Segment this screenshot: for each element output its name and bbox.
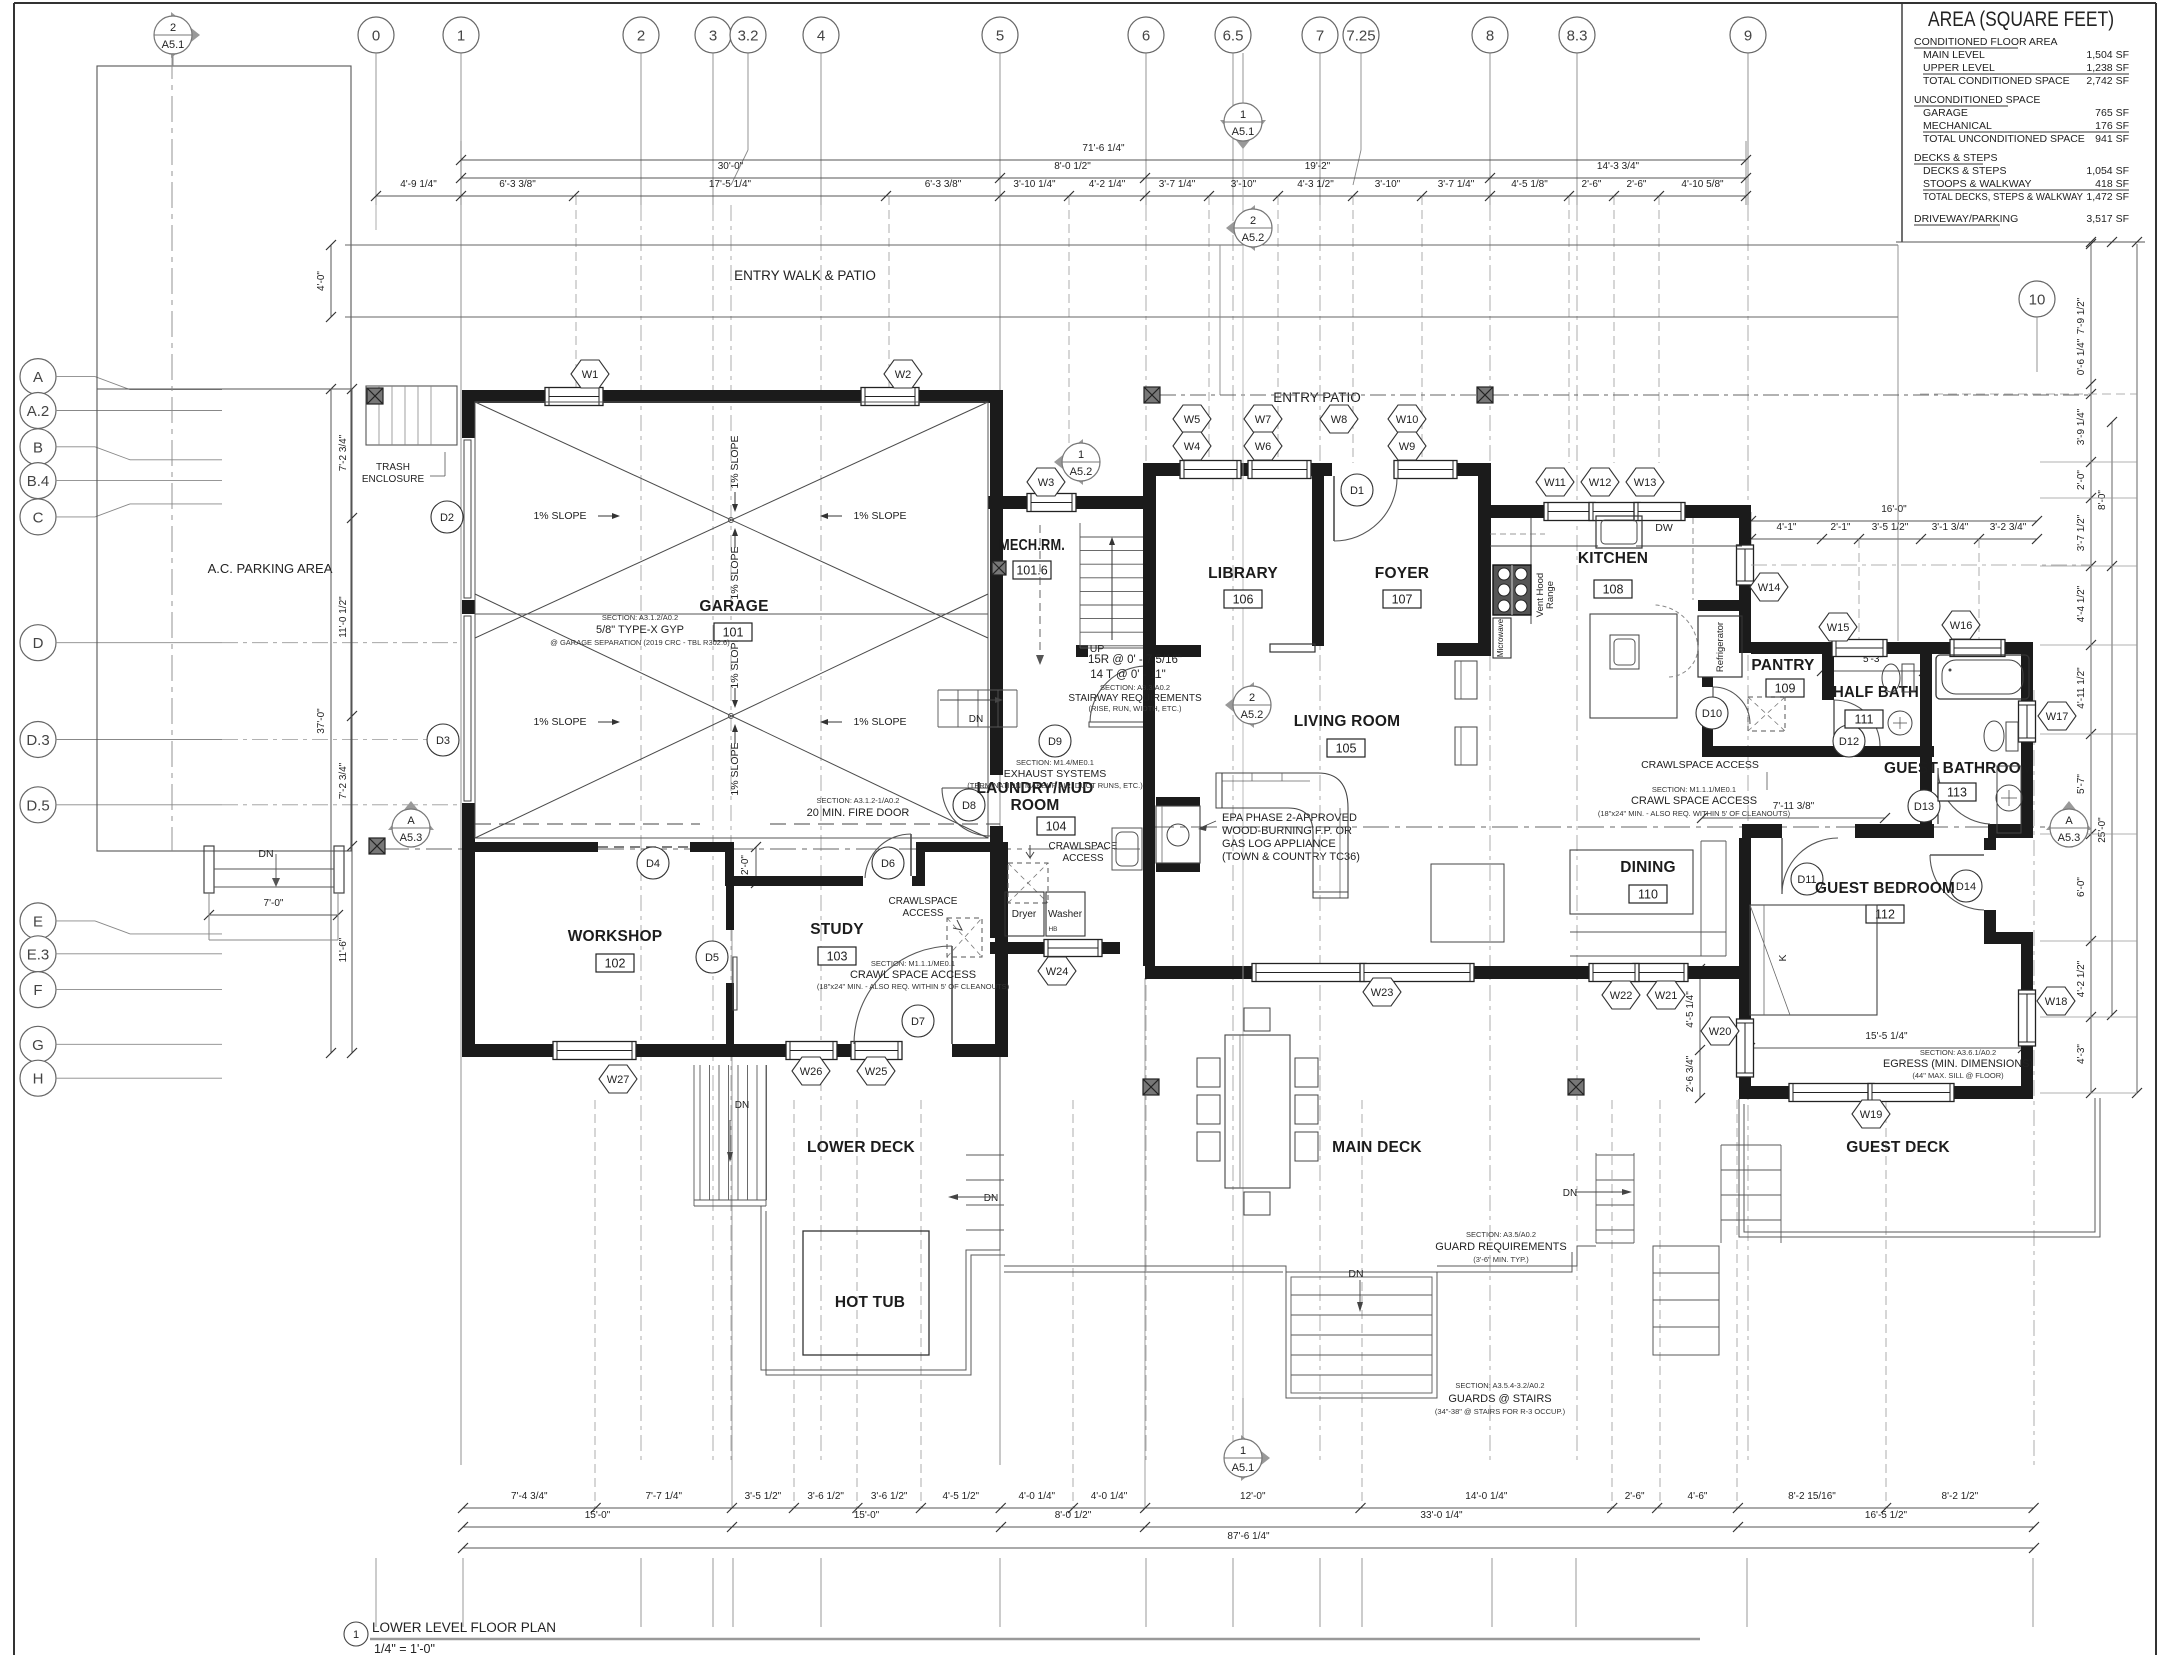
svg-text:12'-0": 12'-0" xyxy=(1240,1491,1266,1502)
svg-text:ACCESS: ACCESS xyxy=(1062,853,1103,864)
grid bubble 0 xyxy=(358,17,394,53)
svg-text:14'-0 1/4": 14'-0 1/4" xyxy=(1465,1491,1508,1502)
svg-text:HB: HB xyxy=(1048,926,1057,933)
pantry kitchen divider xyxy=(1698,600,1751,611)
svg-text:11'-0 1/2": 11'-0 1/2" xyxy=(338,596,349,638)
svg-text:W7: W7 xyxy=(1255,414,1272,426)
svg-text:A5.1: A5.1 xyxy=(162,39,185,51)
trash enclosure xyxy=(366,386,457,445)
kitchen overhang dashes xyxy=(1751,564,2091,566)
svg-text:DN: DN xyxy=(1348,1268,1363,1280)
svg-text:EXHAUST SYSTEMS: EXHAUST SYSTEMS xyxy=(1004,768,1107,780)
svg-text:A5.3: A5.3 xyxy=(2058,832,2081,844)
svg-text:1,054 SF: 1,054 SF xyxy=(2086,165,2129,177)
svg-text:20 MIN. FIRE DOOR: 20 MIN. FIRE DOOR xyxy=(807,807,910,819)
svg-text:SECTION: M1.1.1/ME0.1: SECTION: M1.1.1/ME0.1 xyxy=(1652,785,1736,794)
library shelf at divider xyxy=(1270,644,1315,652)
workshop left wall xyxy=(462,852,475,1044)
svg-text:2: 2 xyxy=(1250,215,1256,227)
svg-text:14 T @ 0' - 11": 14 T @ 0' - 11" xyxy=(1090,669,1166,681)
svg-text:111: 111 xyxy=(1854,713,1873,727)
svg-text:D3: D3 xyxy=(436,735,450,747)
svg-text:Refrigerator: Refrigerator xyxy=(1715,622,1726,672)
svg-text:DN: DN xyxy=(1563,1188,1577,1199)
svg-text:11'-6": 11'-6" xyxy=(338,937,349,962)
svg-text:15'-0": 15'-0" xyxy=(854,1510,880,1521)
svg-text:3'-6 1/2": 3'-6 1/2" xyxy=(871,1491,908,1502)
door tag D7 xyxy=(902,1005,934,1037)
lower deck stair xyxy=(699,1065,701,1200)
svg-text:3'-10": 3'-10" xyxy=(1375,179,1401,190)
svg-text:W14: W14 xyxy=(1758,582,1781,594)
study right wall xyxy=(995,852,1008,1044)
half bath toilet xyxy=(1882,664,1900,692)
svg-text:4'-5 1/2": 4'-5 1/2" xyxy=(943,1491,980,1502)
svg-text:4'-0 1/4": 4'-0 1/4" xyxy=(1091,1491,1128,1502)
svg-text:EGRESS (MIN. DIMENSIONS): EGRESS (MIN. DIMENSIONS) xyxy=(1883,1058,2033,1070)
svg-text:4'-6": 4'-6" xyxy=(1688,1491,1708,1502)
living left wall xyxy=(1143,656,1155,966)
svg-text:30'-0": 30'-0" xyxy=(718,161,744,172)
svg-text:15R @ 0' - 7 5/16": 15R @ 0' - 7 5/16" xyxy=(1088,654,1182,666)
svg-text:W17: W17 xyxy=(2046,711,2069,723)
garage small stair xyxy=(937,690,939,727)
garage door panels left xyxy=(464,440,471,598)
svg-text:4'-10 5/8": 4'-10 5/8" xyxy=(1681,179,1724,190)
window tag W3 xyxy=(1027,468,1065,496)
svg-text:GUEST BATHROOM: GUEST BATHROOM xyxy=(1884,760,2034,777)
door tag D5 xyxy=(696,941,728,973)
door D6 leaf/arc xyxy=(910,834,912,876)
fireplace xyxy=(1156,797,1200,806)
window W6/W7 xyxy=(1248,461,1311,479)
section marker 1/A5.2 xyxy=(1054,439,1083,485)
svg-text:E: E xyxy=(33,913,43,930)
svg-text:8: 8 xyxy=(1486,28,1494,45)
svg-text:71'-6 1/4": 71'-6 1/4" xyxy=(1082,143,1125,154)
library left wall xyxy=(1143,476,1156,656)
window W3 xyxy=(1027,494,1076,512)
svg-text:W25: W25 xyxy=(865,1066,888,1078)
svg-text:4'-0": 4'-0" xyxy=(316,271,327,291)
bar stools xyxy=(1455,661,1477,699)
svg-text:W20: W20 xyxy=(1709,1026,1732,1038)
svg-text:3'-1 3/4": 3'-1 3/4" xyxy=(1932,522,1969,533)
svg-text:D1: D1 xyxy=(1350,485,1364,497)
svg-text:W27: W27 xyxy=(607,1074,630,1086)
svg-text:D10: D10 xyxy=(1702,708,1722,720)
svg-text:5/8" TYPE-X GYP: 5/8" TYPE-X GYP xyxy=(596,624,684,636)
svg-text:@ GARAGE SEPARATION (2019 CRC: @ GARAGE SEPARATION (2019 CRC - TBL R302… xyxy=(550,638,730,647)
window tag W7 xyxy=(1244,405,1282,433)
svg-text:101.6: 101.6 xyxy=(1016,564,1047,578)
svg-text:3'-10 1/4": 3'-10 1/4" xyxy=(1013,179,1056,190)
svg-text:17'-5 1/4": 17'-5 1/4" xyxy=(709,179,752,190)
svg-text:4: 4 xyxy=(817,28,825,45)
window W23 xyxy=(1252,964,1366,982)
grid bubble H xyxy=(20,1060,56,1096)
svg-text:G: G xyxy=(32,1037,44,1054)
svg-text:8.3: 8.3 xyxy=(1567,28,1588,45)
island xyxy=(1590,614,1677,718)
pantry halfbath bottom wall xyxy=(1702,746,1934,757)
svg-text:1% SLOPE: 1% SLOPE xyxy=(729,635,741,688)
svg-text:(34"-38" @ STAIRS FOR R-3 OCCU: (34"-38" @ STAIRS FOR R-3 OCCUP.) xyxy=(1435,1407,1566,1416)
bathtub xyxy=(1936,655,2029,699)
svg-text:E.3: E.3 xyxy=(27,946,50,963)
grid bubble B xyxy=(20,429,56,465)
window tag W6 xyxy=(1244,432,1282,460)
window W15 xyxy=(1832,640,1887,657)
svg-text:W24: W24 xyxy=(1046,966,1069,978)
svg-text:W23: W23 xyxy=(1371,987,1394,999)
svg-text:W2: W2 xyxy=(895,369,912,381)
door D14 arc xyxy=(1930,854,1984,856)
door D8 arc xyxy=(942,788,990,836)
left dimensions xyxy=(330,245,332,317)
svg-text:4'-3": 4'-3" xyxy=(2076,1044,2087,1064)
right dimensions xyxy=(1896,241,2145,243)
svg-text:W4: W4 xyxy=(1184,441,1201,453)
svg-text:D9: D9 xyxy=(1048,736,1062,748)
svg-text:1% SLOPE: 1% SLOPE xyxy=(729,546,741,599)
section marker A/A5.3 xyxy=(388,801,434,830)
svg-text:7'-9 1/2": 7'-9 1/2" xyxy=(2076,297,2087,334)
refrigerator xyxy=(1698,616,1742,677)
grid bubble 6.5 xyxy=(1215,17,1251,53)
svg-text:(RISE, RUN, WIDTH, ETC.): (RISE, RUN, WIDTH, ETC.) xyxy=(1089,704,1182,713)
svg-text:1: 1 xyxy=(1240,109,1246,121)
workshop study divider xyxy=(726,886,734,930)
grid bubble 3 xyxy=(695,17,731,53)
svg-text:W12: W12 xyxy=(1589,477,1612,489)
svg-text:TOTAL CONDITIONED SPACE: TOTAL CONDITIONED SPACE xyxy=(1923,75,2070,87)
svg-text:1% SLOPE: 1% SLOPE xyxy=(533,510,586,522)
svg-text:(18"x24" MIN. - ALSO REQ. WITH: (18"x24" MIN. - ALSO REQ. WITHIN 5' OF C… xyxy=(817,982,1010,991)
svg-text:A5.1: A5.1 xyxy=(1232,1462,1255,1474)
lower east stair xyxy=(1653,1246,1719,1355)
svg-text:A5.2: A5.2 xyxy=(1241,709,1264,721)
svg-text:W9: W9 xyxy=(1399,441,1416,453)
svg-text:GUEST DECK: GUEST DECK xyxy=(1846,1139,1950,1156)
svg-text:(TERMINATION, MAKEUP AIR, DUCT: (TERMINATION, MAKEUP AIR, DUCT RUNS, ETC… xyxy=(967,781,1143,790)
grid bubble 6 xyxy=(1128,17,1164,53)
svg-text:LIBRARY: LIBRARY xyxy=(1208,565,1278,582)
window tag W5 xyxy=(1173,405,1211,433)
half bath sink xyxy=(1888,711,1912,735)
door tag D8 xyxy=(953,789,985,821)
svg-text:9: 9 xyxy=(1744,28,1752,45)
window W17 xyxy=(2019,701,2036,742)
svg-text:4'-11 1/2": 4'-11 1/2" xyxy=(2076,667,2087,709)
upper cab dashed xyxy=(1490,533,1545,535)
svg-text:1: 1 xyxy=(1078,449,1084,461)
guest bath toilet xyxy=(1984,721,2004,751)
svg-text:GUARDS @ STAIRS: GUARDS @ STAIRS xyxy=(1448,1393,1551,1405)
svg-text:ENTRY WALK & PATIO: ENTRY WALK & PATIO xyxy=(734,268,876,283)
laundry crawl hatch xyxy=(1008,863,1048,903)
door tag D4 xyxy=(637,847,669,879)
svg-text:MECH.RM.: MECH.RM. xyxy=(999,537,1065,554)
study top wall xyxy=(734,876,863,886)
svg-text:W15: W15 xyxy=(1827,622,1850,634)
svg-text:ROOM: ROOM xyxy=(1010,797,1059,814)
svg-text:3'-7 1/4": 3'-7 1/4" xyxy=(1438,179,1475,190)
window tag W22 xyxy=(1602,981,1640,1009)
garage left wall xyxy=(462,390,475,438)
window W1 xyxy=(545,388,603,406)
grid bubble 8.3 xyxy=(1559,17,1595,53)
lower deck DN stair xyxy=(966,1154,1004,1156)
range xyxy=(1493,565,1531,615)
door D7 leaf/arc xyxy=(951,946,953,1044)
kitchen dimensions xyxy=(1750,512,1752,546)
svg-text:7'-2 3/4": 7'-2 3/4" xyxy=(338,762,349,799)
svg-text:7'-4 3/4": 7'-4 3/4" xyxy=(511,1491,548,1502)
svg-text:3'-7 1/2": 3'-7 1/2" xyxy=(2076,514,2087,551)
svg-text:1% SLOPE: 1% SLOPE xyxy=(853,510,906,522)
svg-text:7'-0": 7'-0" xyxy=(264,898,284,909)
section marker 2/A5.2 xyxy=(1226,205,1255,251)
svg-text:GARAGE: GARAGE xyxy=(699,598,768,615)
svg-text:A: A xyxy=(407,815,415,827)
svg-text:DN: DN xyxy=(969,714,983,725)
svg-text:6'-3 3/8": 6'-3 3/8" xyxy=(499,179,536,190)
svg-text:5'-7": 5'-7" xyxy=(2076,774,2087,794)
svg-text:16'-0": 16'-0" xyxy=(1881,504,1907,515)
window W26 xyxy=(786,1042,837,1060)
svg-text:GUEST BEDROOM: GUEST BEDROOM xyxy=(1815,880,1955,897)
half bath right wall xyxy=(1920,653,1932,824)
window tag W24 xyxy=(1038,957,1076,985)
svg-text:A.C. PARKING AREA: A.C. PARKING AREA xyxy=(208,561,333,576)
svg-text:SECTION: A3.5.4-3.2/A0.2: SECTION: A3.5.4-3.2/A0.2 xyxy=(1455,1381,1544,1390)
svg-text:2: 2 xyxy=(170,22,176,34)
svg-text:112: 112 xyxy=(1875,908,1895,922)
bed xyxy=(1750,905,1877,1015)
svg-text:1,504 SF: 1,504 SF xyxy=(2086,49,2129,61)
garage top wall xyxy=(463,390,549,403)
svg-text:4'-3 1/2": 4'-3 1/2" xyxy=(1297,179,1334,190)
section marker 1/A5.1 xyxy=(1220,120,1266,149)
door tag D2 xyxy=(431,501,463,533)
svg-text:2: 2 xyxy=(1249,692,1255,704)
svg-text:103: 103 xyxy=(827,950,848,964)
svg-text:3'-7 1/4": 3'-7 1/4" xyxy=(1159,179,1196,190)
svg-text:Range: Range xyxy=(1545,581,1556,609)
guest deck xyxy=(1739,1098,2100,1237)
bedroom jog wall xyxy=(1984,932,2033,944)
svg-text:A5.1: A5.1 xyxy=(1232,126,1255,138)
svg-text:FOYER: FOYER xyxy=(1375,565,1429,582)
door D12 arc xyxy=(1833,700,1835,746)
svg-text:KITCHEN: KITCHEN xyxy=(1578,550,1648,567)
grid bubble 2 xyxy=(623,17,659,53)
garage X top half xyxy=(475,402,988,638)
svg-text:D.3: D.3 xyxy=(26,732,49,749)
svg-text:5: 5 xyxy=(996,28,1004,45)
section line vertical A5.1 xyxy=(171,53,173,851)
pantry crawl hatch xyxy=(1748,697,1785,731)
section line A-A horizontal xyxy=(383,848,1148,850)
grid bubble F xyxy=(20,972,56,1008)
svg-text:A5.3: A5.3 xyxy=(400,832,423,844)
svg-text:W16: W16 xyxy=(1950,620,1973,632)
window tag W17 xyxy=(2038,702,2076,730)
svg-text:4'-1": 4'-1" xyxy=(1777,522,1797,533)
section marker A/A5.3 xyxy=(2046,801,2092,830)
svg-text:19'-2": 19'-2" xyxy=(1305,161,1331,172)
window W20 xyxy=(1737,1019,1754,1077)
grid bubble 5 xyxy=(982,17,1018,53)
window W25 xyxy=(851,1042,902,1060)
foyer right wall xyxy=(1478,463,1491,644)
svg-text:B: B xyxy=(33,439,43,456)
svg-text:GUARD REQUIREMENTS: GUARD REQUIREMENTS xyxy=(1435,1241,1566,1253)
svg-text:8'-2 1/2": 8'-2 1/2" xyxy=(1942,1491,1979,1502)
svg-text:D11: D11 xyxy=(1797,874,1816,886)
door tag D3 xyxy=(427,724,459,756)
grid bubble D.5 xyxy=(20,787,56,823)
window W27 xyxy=(553,1042,636,1060)
svg-text:DN: DN xyxy=(735,1100,749,1111)
garage slab outline xyxy=(475,402,988,838)
svg-text:108: 108 xyxy=(1603,583,1624,597)
door tag D9 xyxy=(1039,725,1071,757)
lower deck outline xyxy=(761,1057,1000,1370)
door D1 leaf/arc xyxy=(1333,476,1335,541)
kitchen counters xyxy=(1490,545,1598,547)
svg-text:TOTAL UNCONDITIONED SPACE: TOTAL UNCONDITIONED SPACE xyxy=(1923,133,2085,145)
svg-text:LOWER DECK: LOWER DECK xyxy=(807,1139,916,1156)
mech dashed duct xyxy=(1039,525,1041,660)
svg-text:A: A xyxy=(2065,815,2073,827)
svg-text:TOTAL DECKS, STEPS & WALKWAY: TOTAL DECKS, STEPS & WALKWAY xyxy=(1923,191,2083,203)
window tag W4 xyxy=(1173,432,1211,460)
svg-text:4'-5 1/8": 4'-5 1/8" xyxy=(1511,179,1548,190)
svg-text:D.5: D.5 xyxy=(26,797,49,814)
svg-text:MECHANICAL: MECHANICAL xyxy=(1923,120,1992,132)
parking area outline xyxy=(97,66,351,851)
svg-text:TRASH: TRASH xyxy=(376,462,410,473)
windows W11-W13 xyxy=(1544,503,1595,521)
svg-text:CRAWL SPACE ACCESS: CRAWL SPACE ACCESS xyxy=(850,969,976,981)
svg-text:3'-10": 3'-10" xyxy=(1231,179,1257,190)
grid bubble 8 xyxy=(1472,17,1508,53)
laundry door leaf/arc xyxy=(1089,722,1147,727)
svg-text:15'-0": 15'-0" xyxy=(585,1510,611,1521)
svg-text:3'-5 1/2": 3'-5 1/2" xyxy=(745,1491,782,1502)
svg-text:4'-4 1/2": 4'-4 1/2" xyxy=(2076,585,2087,622)
svg-text:DN: DN xyxy=(258,848,273,860)
svg-text:3'-6 1/2": 3'-6 1/2" xyxy=(807,1491,844,1502)
door D13 arc xyxy=(1937,768,1939,824)
svg-text:SECTION: A3.1.2/A0.2: SECTION: A3.1.2/A0.2 xyxy=(602,613,678,622)
svg-text:7'-2 3/4": 7'-2 3/4" xyxy=(338,434,349,471)
svg-text:D14: D14 xyxy=(1956,881,1976,893)
svg-text:107: 107 xyxy=(1392,593,1413,607)
bottom dimension rows xyxy=(463,1507,2034,1509)
window tag W20 xyxy=(1701,1017,1739,1045)
svg-text:2'-6": 2'-6" xyxy=(1625,1491,1645,1502)
svg-text:2'-6": 2'-6" xyxy=(1582,179,1602,190)
main deck stair xyxy=(1286,1272,1437,1398)
svg-text:AREA (SQUARE FEET): AREA (SQUARE FEET) xyxy=(1928,7,2114,31)
section marker 1/A5.1 xyxy=(1241,1435,1270,1481)
svg-text:D7: D7 xyxy=(911,1016,925,1028)
door tag D13 xyxy=(1908,790,1940,822)
svg-text:DN: DN xyxy=(984,1193,998,1204)
svg-text:3'-2 3/4": 3'-2 3/4" xyxy=(1990,522,2027,533)
svg-text:4'-9 1/4": 4'-9 1/4" xyxy=(400,179,437,190)
svg-text:1: 1 xyxy=(1240,1445,1246,1457)
guest bath vanity xyxy=(1997,766,2021,833)
guest deck stair xyxy=(1721,1144,1781,1146)
bedroom east upper wall xyxy=(1984,838,1996,850)
svg-text:8'-2 15/16": 8'-2 15/16" xyxy=(1788,1491,1836,1502)
svg-text:H: H xyxy=(33,1071,44,1088)
svg-text:1,472 SF: 1,472 SF xyxy=(2086,191,2129,203)
svg-text:3'-9 1/4": 3'-9 1/4" xyxy=(2076,408,2087,445)
svg-text:3,517 SF: 3,517 SF xyxy=(2086,213,2129,225)
window tag W8 xyxy=(1320,405,1358,433)
bedroom dim xyxy=(1750,1047,2023,1049)
svg-text:(44" MAX. SILL @ FLOOR): (44" MAX. SILL @ FLOOR) xyxy=(1912,1071,2004,1080)
grid bubble 4 xyxy=(803,17,839,53)
svg-text:EPA PHASE 2-APPROVED: EPA PHASE 2-APPROVED xyxy=(1222,812,1357,824)
svg-text:W18: W18 xyxy=(2045,996,2068,1008)
svg-text:D6: D6 xyxy=(881,858,895,870)
entry patio dashed edge xyxy=(1160,394,1478,396)
window tag W14 xyxy=(1750,573,1788,601)
svg-text:SECTION: A3.3/A0.2: SECTION: A3.3/A0.2 xyxy=(1100,683,1170,692)
step jog wall xyxy=(725,842,734,886)
grid bubble C xyxy=(20,499,56,535)
workshop/study bottom wall xyxy=(462,1044,557,1057)
main deck east stair xyxy=(1596,1154,1634,1156)
svg-text:6'-0": 6'-0" xyxy=(2076,877,2087,897)
kitchen right jog wall xyxy=(1739,518,1751,549)
library foyer divider xyxy=(1312,476,1324,646)
laundry sink xyxy=(1112,828,1142,870)
svg-text:4'-2 1/4": 4'-2 1/4" xyxy=(1089,179,1126,190)
svg-text:1% SLOPE: 1% SLOPE xyxy=(729,742,741,795)
svg-text:Microwave: Microwave xyxy=(1496,618,1505,657)
svg-text:4'-2 1/2": 4'-2 1/2" xyxy=(2076,960,2087,997)
bath top wall xyxy=(1751,642,1836,654)
garage right wall xyxy=(990,390,1003,506)
svg-text:DECKS & STEPS: DECKS & STEPS xyxy=(1923,165,2006,177)
grid bubble E xyxy=(20,903,56,939)
svg-text:Dryer: Dryer xyxy=(1012,909,1037,920)
svg-text:CONDITIONED FLOOR AREA: CONDITIONED FLOOR AREA xyxy=(1914,36,2058,48)
window W16 xyxy=(1950,640,2005,657)
svg-text:15'-5 1/4": 15'-5 1/4" xyxy=(1865,1031,1908,1042)
svg-text:W5: W5 xyxy=(1184,414,1201,426)
svg-text:W10: W10 xyxy=(1396,414,1419,426)
door D11 arc xyxy=(1781,838,1783,894)
svg-text:87'-6 1/4": 87'-6 1/4" xyxy=(1227,1531,1270,1542)
svg-text:941 SF: 941 SF xyxy=(2095,133,2129,145)
svg-text:CRAWL SPACE ACCESS: CRAWL SPACE ACCESS xyxy=(1631,795,1757,807)
svg-text:4'-5 1/4": 4'-5 1/4" xyxy=(1685,991,1696,1028)
grid bubble 7.25 xyxy=(1343,17,1379,53)
door tag D11 xyxy=(1791,863,1823,895)
svg-text:LIVING ROOM: LIVING ROOM xyxy=(1294,713,1400,730)
pantry right wall xyxy=(1822,653,1834,700)
svg-text:1,238 SF: 1,238 SF xyxy=(2086,62,2129,74)
mech top wall xyxy=(988,496,1031,509)
